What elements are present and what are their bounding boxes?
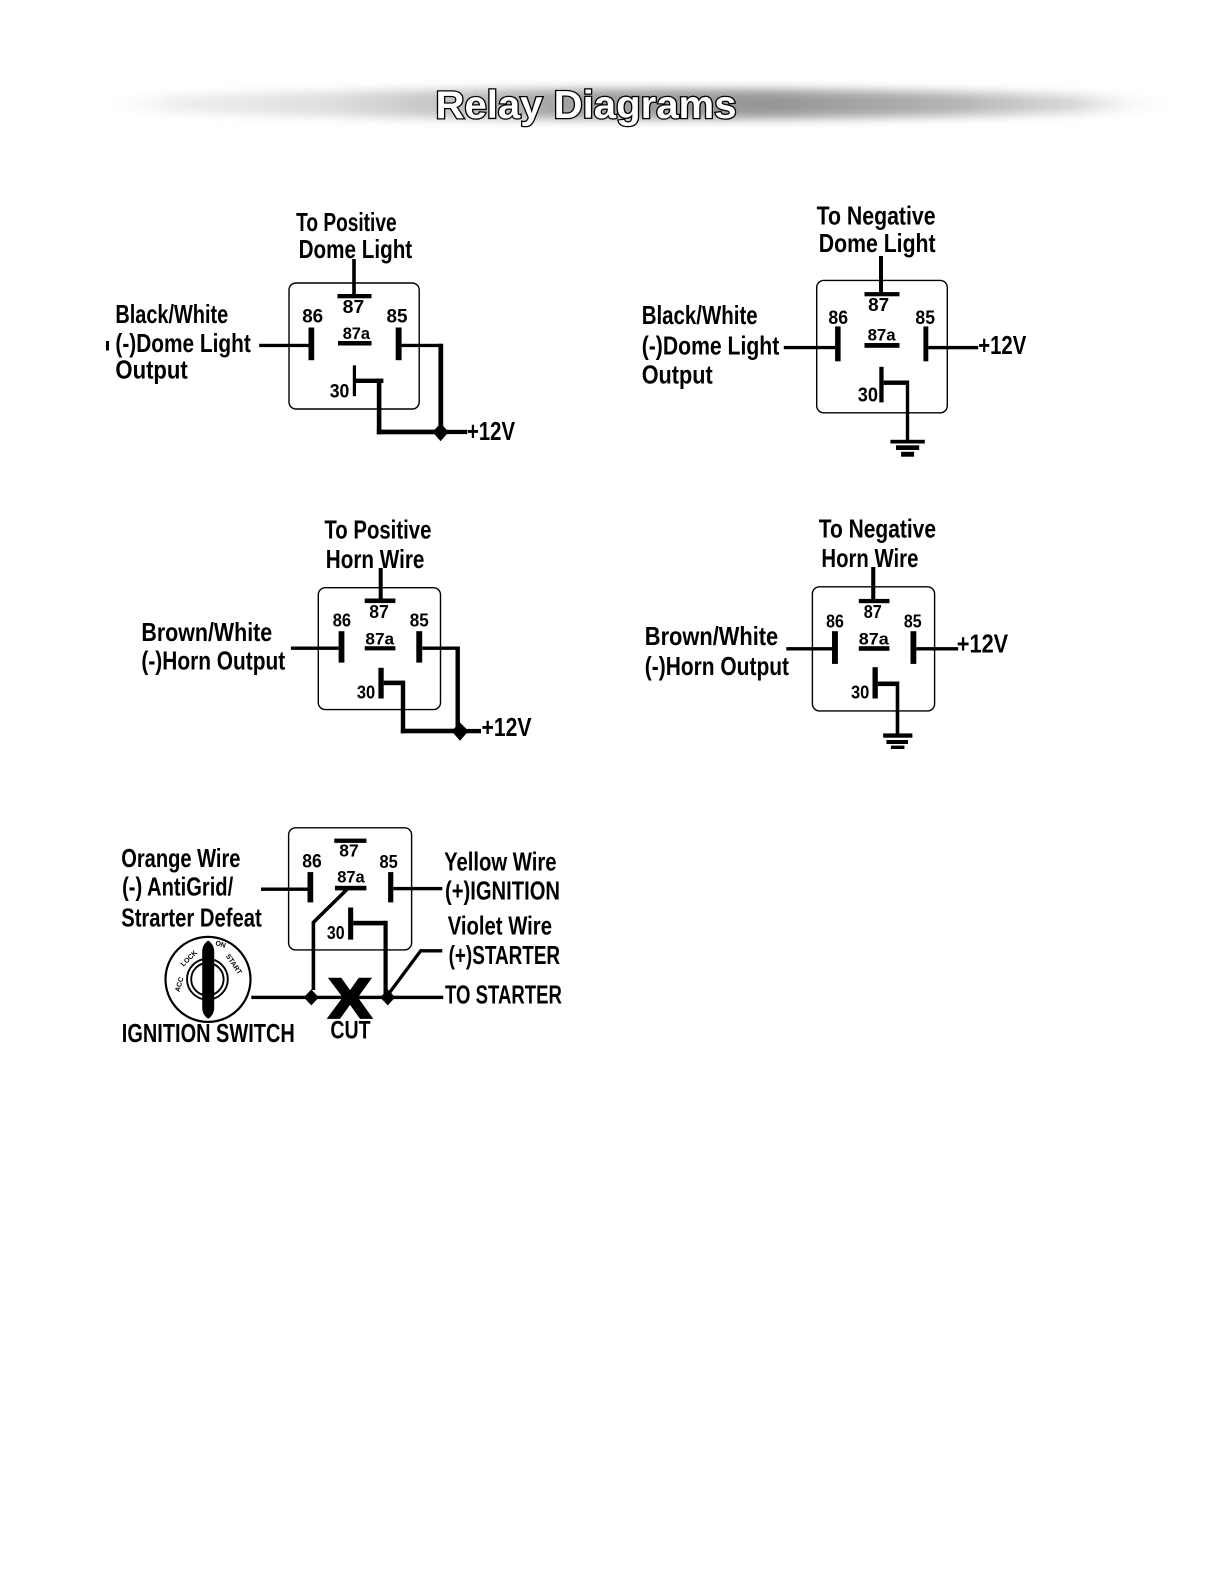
pin 86 blade K2 <box>835 326 841 361</box>
svg-text:87a: 87a <box>365 630 395 648</box>
svg-text:85: 85 <box>380 851 398 872</box>
node: +12V junction <box>452 723 469 741</box>
svg-text:(-)Horn Output: (-)Horn Output <box>141 646 285 676</box>
wire: pin 85 to +12V <box>928 346 978 349</box>
svg-text:Output: Output <box>115 355 188 385</box>
wire: horn wire to pin 87 <box>379 568 383 599</box>
svg-text:+12V: +12V <box>957 628 1009 658</box>
pin 85 blade K2 <box>923 326 928 361</box>
wire: pin 30 right <box>353 921 385 926</box>
wire: pin 85 to yellow wire label <box>393 887 442 890</box>
wire: pin 30 right <box>356 379 384 383</box>
svg-text:+12V: +12V <box>482 712 533 742</box>
node B: junction diamond right <box>380 989 395 1005</box>
pin 30 blade K3 <box>378 668 383 699</box>
svg-text:(+)STARTER: (+)STARTER <box>449 940 561 970</box>
wire: pin 30 down <box>377 379 382 435</box>
wire: bottom run to +12V node <box>401 729 460 734</box>
pin 30 blade K1 <box>353 365 356 396</box>
wire: horn wire to pin 87 <box>871 567 875 599</box>
pin 87a plate K4 <box>859 646 890 651</box>
svg-text:85: 85 <box>387 306 408 327</box>
svg-text:TO STARTER: TO STARTER <box>445 980 562 1010</box>
wire: main run ignition to starter <box>251 996 443 999</box>
svg-text:87a: 87a <box>859 630 890 648</box>
svg-text:+12V: +12V <box>467 416 516 446</box>
svg-text:To Positive: To Positive <box>296 207 397 237</box>
wire: dome light to pin 87 <box>879 256 883 294</box>
svg-text:+12V: +12V <box>978 330 1027 360</box>
pin 87 plate K2 <box>865 292 900 296</box>
svg-text:(-)Dome Light: (-)Dome Light <box>642 331 780 361</box>
pin 85 blade K3 <box>416 631 422 662</box>
svg-text:Strarter Defeat: Strarter Defeat <box>121 903 262 933</box>
svg-text:86: 86 <box>826 610 844 631</box>
svg-text:(-)Dome Light: (-)Dome Light <box>115 328 251 358</box>
title gradient band <box>87 89 1187 119</box>
wire: pin 30 right <box>384 681 403 686</box>
relay K1 box <box>289 283 419 409</box>
pin 87 plate K3 <box>365 599 396 604</box>
svg-text:(-)Horn Output: (-)Horn Output <box>645 651 789 681</box>
pin 86 blade K3 <box>339 631 345 662</box>
svg-text:30: 30 <box>858 385 878 407</box>
svg-text:30: 30 <box>330 381 350 402</box>
node: +12V junction <box>433 423 449 441</box>
svg-text:To Negative: To Negative <box>819 513 936 543</box>
relay K2 box <box>817 280 948 412</box>
stray tick mark <box>106 341 109 351</box>
wire: pin 30 down <box>401 681 405 734</box>
svg-text:87a: 87a <box>868 327 897 345</box>
svg-text:85: 85 <box>410 610 429 631</box>
wire: output label to pin 86 <box>784 346 835 349</box>
pin 87a plate K5 <box>335 886 367 891</box>
wire: label to pin 86 <box>786 647 832 650</box>
svg-text:86: 86 <box>333 610 351 631</box>
pin 85 blade K4 <box>911 631 917 664</box>
pin 87 plate K1 <box>338 294 372 298</box>
svg-text:(-) AntiGrid/: (-) AntiGrid/ <box>122 872 233 902</box>
svg-text:87: 87 <box>864 601 882 622</box>
pin 87 plate K4 <box>859 599 890 603</box>
pin 85 blade K1 <box>396 328 402 361</box>
svg-text:Dome Light: Dome Light <box>819 228 936 258</box>
svg-text:Yellow Wire: Yellow Wire <box>444 847 556 877</box>
wire: violet wire connector <box>389 951 442 994</box>
pin 87a plate K2 <box>865 343 900 348</box>
svg-text:To Negative: To Negative <box>817 201 936 231</box>
svg-text:Violet Wire: Violet Wire <box>448 910 552 940</box>
relay K4 box <box>812 587 934 711</box>
relay K3 box <box>318 588 440 710</box>
svg-text:85: 85 <box>915 308 935 329</box>
relay K5 box <box>289 828 412 950</box>
svg-text:87: 87 <box>339 841 358 861</box>
node A: junction diamond left <box>304 989 319 1005</box>
wire: label to pin 86 <box>291 647 339 650</box>
svg-text:Black/White: Black/White <box>642 300 758 330</box>
svg-text:87: 87 <box>369 601 389 622</box>
wire: down from pin85 wire to +12V node <box>438 344 443 434</box>
svg-text:Brown/White: Brown/White <box>645 621 778 651</box>
svg-text:To Positive: To Positive <box>324 514 431 544</box>
svg-text:87a: 87a <box>343 325 371 343</box>
wire: bottom run to +12V node <box>377 430 441 435</box>
pin 30 blade K4 <box>873 667 878 698</box>
svg-text:Horn Wire: Horn Wire <box>326 544 425 574</box>
wire: pin 30 down to node B <box>384 921 388 994</box>
pin 85 blade K5 <box>388 872 393 902</box>
ignition switch inner rings <box>187 959 228 1000</box>
svg-text:86: 86 <box>302 306 323 327</box>
ground symbol K4 <box>883 733 912 737</box>
svg-text:87: 87 <box>868 294 889 315</box>
pin 87 plate K5 <box>334 839 366 843</box>
svg-text:Relay Diagrams: Relay Diagrams <box>436 84 737 127</box>
svg-text:30: 30 <box>327 922 345 943</box>
wire: down from pin85 to +12V node <box>456 647 460 733</box>
pin 30 blade K5 <box>348 908 353 940</box>
wire: pin 85 to right <box>422 647 458 650</box>
svg-text:86: 86 <box>302 852 322 873</box>
wire: pin 85 to +12V <box>916 647 958 650</box>
svg-text:87a: 87a <box>337 868 365 886</box>
wire: dome light to pin 87 <box>352 259 356 296</box>
svg-text:Black/White: Black/White <box>115 299 228 329</box>
svg-text:IGNITION SWITCH: IGNITION SWITCH <box>122 1018 295 1048</box>
pin 87a plate K1 <box>338 341 372 346</box>
svg-text:86: 86 <box>828 308 848 329</box>
wire: pin 30 down to ground <box>896 682 900 735</box>
svg-text:30: 30 <box>357 682 375 703</box>
ignition switch key <box>202 941 214 1019</box>
ground symbol K2 <box>890 440 924 444</box>
ignition switch outer circle <box>166 937 251 1022</box>
wire: pin 85 to right <box>402 344 443 347</box>
wire: pin 30 down to ground <box>906 381 909 441</box>
svg-text:85: 85 <box>904 610 922 631</box>
pin 86 blade K1 <box>309 328 315 361</box>
wire: node to +12V <box>466 729 481 733</box>
svg-text:Output: Output <box>642 360 713 390</box>
pin 86 blade K5 <box>308 872 314 902</box>
wire: pin 30 right <box>884 381 908 385</box>
svg-text:(+)IGNITION: (+)IGNITION <box>445 875 560 905</box>
pin 87a plate K3 <box>365 646 396 650</box>
wire: node to +12V <box>446 430 467 434</box>
pin 30 blade K2 <box>879 367 883 403</box>
pin 86 blade K4 <box>832 631 838 664</box>
svg-text:87: 87 <box>343 296 365 317</box>
wire: pin 30 right <box>878 682 898 687</box>
svg-text:30: 30 <box>851 682 869 703</box>
svg-text:Horn Wire: Horn Wire <box>821 543 918 573</box>
wire: diagonal from 87a <box>313 890 347 991</box>
wire: output label to pin 86 <box>259 344 308 347</box>
wire: label to pin 86 <box>261 888 308 891</box>
svg-text:CUT: CUT <box>330 1016 370 1044</box>
svg-text:Brown/White: Brown/White <box>141 617 272 647</box>
svg-text:Orange Wire: Orange Wire <box>121 843 240 873</box>
